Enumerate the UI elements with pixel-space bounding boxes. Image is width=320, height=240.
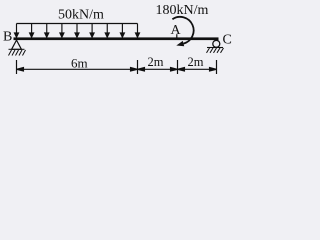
pin support B triangle xyxy=(12,40,22,49)
wire arrow 6 xyxy=(91,24,93,34)
roller support C hatching xyxy=(207,48,224,53)
wire arrow 1 xyxy=(16,24,18,34)
dimension line 2m (first) with arrows xyxy=(138,68,178,72)
roller support C ground line xyxy=(207,47,223,49)
wire arrow 5 xyxy=(76,24,78,34)
dimension line 2m (second) with arrows xyxy=(178,68,217,72)
distributed load 50kN/m: top line xyxy=(17,23,138,25)
wire arrow 4 xyxy=(61,24,63,34)
svg-text:B: B xyxy=(3,30,12,45)
svg-text:2m: 2m xyxy=(188,55,204,69)
node A tick xyxy=(176,34,178,37)
moment arc at A xyxy=(172,17,193,44)
wire arrow 3 xyxy=(46,24,48,34)
distributed load arrows xyxy=(15,24,140,38)
pin support B ground hatching xyxy=(9,49,26,55)
svg-text:A: A xyxy=(171,23,182,38)
wire arrow 8 xyxy=(121,24,123,34)
dimension line 6m with arrows xyxy=(17,68,138,72)
dim tick at 6m xyxy=(137,60,139,74)
dim tick at B xyxy=(16,60,18,74)
svg-text:C: C xyxy=(223,33,232,48)
wire arrow 7 xyxy=(106,24,108,34)
dimension ticks xyxy=(17,60,217,74)
dim tick at C xyxy=(216,60,218,74)
wire arrow 2 xyxy=(31,24,33,34)
svg-text:50kN/m: 50kN/m xyxy=(58,7,104,22)
svg-text:180kN/m: 180kN/m xyxy=(156,3,209,18)
wire arrow 9 xyxy=(137,24,139,34)
beam B-C xyxy=(14,37,219,40)
roller support C circle xyxy=(213,40,220,47)
background xyxy=(0,0,239,80)
svg-text:6m: 6m xyxy=(71,56,88,71)
svg-text:2m: 2m xyxy=(148,55,164,69)
dim tick at A xyxy=(177,60,179,74)
